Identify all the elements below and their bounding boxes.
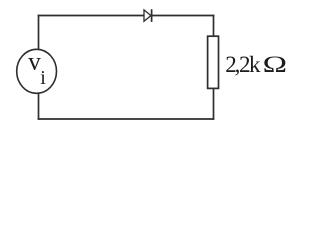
svg-text:Ω: Ω xyxy=(263,52,287,77)
svg-text:2,2k: 2,2k xyxy=(225,52,261,77)
wire top-left horizontal segment xyxy=(38,15,144,17)
svg-text:i: i xyxy=(40,67,46,89)
wire right vertical (resistor top lead) xyxy=(213,15,215,37)
wire top-right horizontal segment xyxy=(152,15,215,17)
diode D1 cathode bar xyxy=(151,9,153,22)
resistor R1 body xyxy=(208,36,219,88)
diode D1 triangle (anode) xyxy=(144,10,151,21)
svg-text:v: v xyxy=(28,48,41,75)
voltage source V1 circle xyxy=(17,49,57,93)
wire right vertical (resistor bottom lead) xyxy=(213,88,215,120)
wire left vertical (source bottom lead) xyxy=(38,93,40,120)
wire left vertical (source top lead) xyxy=(38,15,40,50)
wire bottom horizontal xyxy=(38,118,215,120)
